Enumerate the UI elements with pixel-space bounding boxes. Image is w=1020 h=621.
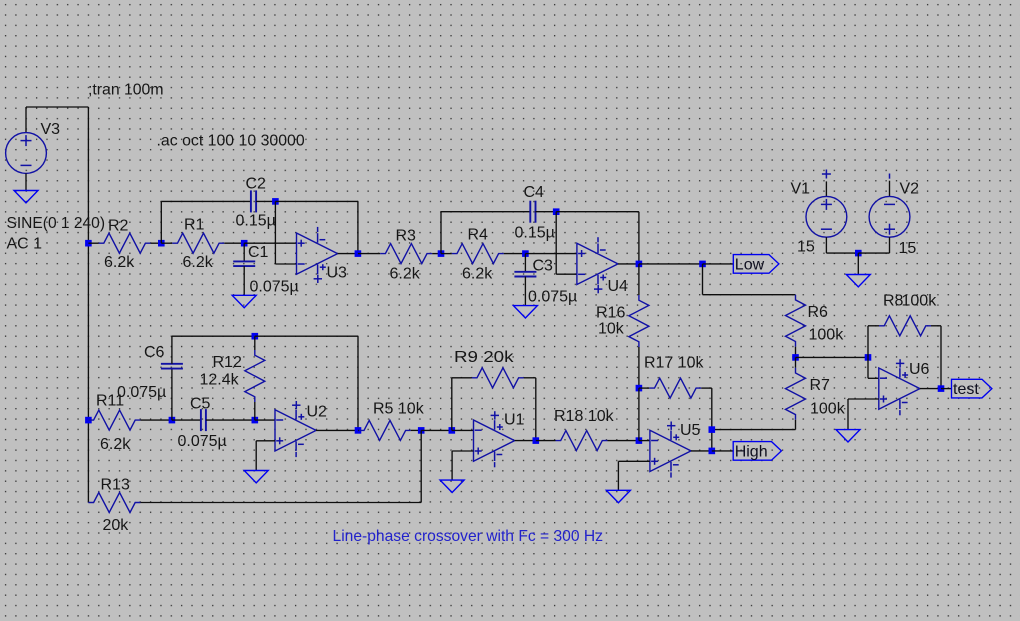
- op-amp U4: [577, 237, 618, 293]
- wire U2 output: [316, 429, 358, 431]
- wire node down to -in: [274, 201, 276, 264]
- wire V1 top lead: [825, 181, 827, 196]
- voltage source V1: [806, 196, 847, 237]
- wire R3 to node: [432, 253, 441, 255]
- node junction R6R7/U6-: [865, 354, 872, 361]
- svg-text:100k: 100k: [809, 327, 845, 344]
- svg-text:U2: U2: [307, 404, 328, 421]
- svg-text:15: 15: [899, 240, 917, 257]
- svg-text:C4: C4: [524, 184, 545, 201]
- wire R11 to node: [140, 419, 172, 421]
- wire U6 output: [920, 388, 941, 390]
- wire C4 line left segment: [441, 211, 530, 213]
- wire down to U4 output node: [638, 212, 640, 264]
- wire node to R18: [536, 440, 556, 442]
- wire V2 to ground node: [858, 252, 889, 254]
- node junction C5/R12/U2-: [252, 417, 259, 424]
- wire U4 output: [618, 263, 639, 265]
- resistor R11: [88, 410, 140, 430]
- wire R8 left: [868, 325, 879, 327]
- resistor R16: [629, 295, 649, 347]
- wire top horizontal to main vertical: [26, 106, 88, 108]
- node junction R6/R7: [792, 354, 799, 361]
- wire R5 to node: [411, 429, 421, 431]
- resistor R4: [452, 244, 504, 264]
- wire node to U5 -in: [639, 440, 650, 442]
- wire node to R4: [441, 253, 452, 255]
- wire R17 corner down: [711, 388, 713, 451]
- wire R9 left horizontal: [452, 377, 472, 379]
- wire R6 node to R7: [795, 357, 797, 367]
- wire node to R1: [161, 242, 172, 244]
- svg-text:C5: C5: [190, 396, 211, 413]
- node junction R9/U1-: [449, 427, 456, 434]
- svg-text:U4: U4: [608, 278, 629, 295]
- wire node to R9 node: [421, 429, 452, 431]
- node junction U2 out/R5: [355, 427, 362, 434]
- svg-text:0.15µ: 0.15µ: [236, 213, 276, 230]
- node junction R1/C1/U3+: [241, 240, 248, 247]
- ground under V1 V2: [846, 253, 870, 287]
- svg-text:.ac oct 100 10 30000: .ac oct 100 10 30000: [157, 133, 305, 150]
- wire node up to C6: [171, 369, 173, 421]
- op-amp U3: [297, 227, 338, 283]
- svg-text:R17 10k: R17 10k: [644, 355, 704, 372]
- resistor R1: [172, 233, 224, 253]
- node junction V1/V2 ground: [855, 250, 862, 257]
- wire U6 +in: [848, 398, 879, 400]
- svg-text:Low: Low: [735, 256, 765, 273]
- svg-text:High: High: [735, 443, 768, 460]
- node junction U4 out: [636, 261, 643, 268]
- node junction bus/R11: [85, 417, 92, 424]
- svg-text:AC 1: AC 1: [7, 236, 43, 253]
- resistor R5: [359, 420, 411, 440]
- op-amp U6: [879, 359, 920, 415]
- wire to High port: [712, 450, 733, 452]
- wire U3 output: [338, 253, 358, 255]
- node junction C4/U4-: [553, 208, 560, 215]
- wire U4 out down to R16: [638, 264, 640, 295]
- wire node up to C4 line: [440, 212, 442, 254]
- node junction R4/C3/U4+: [522, 250, 529, 257]
- wire R9 right horizontal: [524, 377, 536, 379]
- ground U2 +in: [244, 471, 268, 483]
- svg-text:6.2k: 6.2k: [100, 436, 131, 453]
- ground under V3: [14, 173, 38, 203]
- node junction R2/R1/C2: [158, 240, 165, 247]
- node junction C6/R12 top: [252, 333, 259, 340]
- wire node up to C2 line: [160, 201, 162, 243]
- wire U5 +in: [618, 460, 650, 462]
- wire R16 bottom: [638, 347, 640, 388]
- svg-text:Line-phase crossover with Fc =: Line-phase crossover with Fc = 300 Hz: [333, 528, 604, 545]
- node junction U3 out: [355, 250, 362, 257]
- node junction U5 out: [709, 448, 716, 455]
- op-amp U1: [474, 411, 515, 467]
- ground U6 +in: [836, 430, 860, 442]
- wire C6 feedback line: [172, 335, 255, 337]
- node junction Low/R6: [699, 261, 706, 268]
- wire R9 left up: [451, 378, 453, 431]
- svg-text:R18 10k: R18 10k: [554, 408, 615, 425]
- wire C1 top lead: [243, 243, 245, 261]
- wire C4 to node: [536, 211, 557, 213]
- node junction R18/U5-: [636, 437, 643, 444]
- wire to U4 -in: [556, 273, 577, 275]
- svg-text:R1: R1: [184, 217, 205, 234]
- svg-text:V1: V1: [791, 181, 811, 198]
- svg-text:C1: C1: [248, 244, 269, 261]
- wire C6 up to feedback line: [171, 336, 173, 364]
- wire V2 top lead: [889, 181, 891, 197]
- wire R4 to node: [504, 253, 526, 255]
- wire to R6 top: [703, 294, 796, 296]
- ground under C1: [232, 266, 256, 308]
- svg-text:R9 20k: R9 20k: [454, 349, 515, 366]
- wire R8 down to U6 out: [940, 326, 942, 389]
- wire C3 top lead: [524, 254, 526, 272]
- svg-text:0.075µ: 0.075µ: [528, 289, 577, 306]
- svg-text:6.2k: 6.2k: [104, 254, 135, 271]
- output port Low: [733, 255, 779, 274]
- svg-text:10k: 10k: [598, 321, 625, 338]
- wire main vertical bus: [87, 107, 89, 503]
- svg-text:100k: 100k: [902, 293, 938, 310]
- svg-text:SINE(0 1 240): SINE(0 1 240): [7, 215, 106, 232]
- svg-text:0.075µ: 0.075µ: [117, 384, 166, 401]
- wire up to R8 line: [867, 326, 869, 358]
- wire R7 bottom to U5 branch: [712, 429, 796, 431]
- wire R18 to node: [608, 440, 639, 442]
- wire U2 +in down: [255, 441, 257, 471]
- plus marker above V1: [822, 170, 831, 179]
- wire V2 bottom: [889, 237, 891, 253]
- wire R6 bottom to node: [795, 347, 797, 358]
- svg-text:R8: R8: [883, 293, 904, 310]
- node junction R7/R17: [709, 426, 716, 433]
- svg-text:0.075µ: 0.075µ: [178, 433, 227, 450]
- wire U6 -in down: [867, 357, 869, 378]
- wire R9 right down: [535, 378, 537, 441]
- wire U6 +in down: [847, 399, 849, 430]
- resistor R17: [649, 378, 701, 398]
- svg-text:0.15µ: 0.15µ: [515, 225, 555, 242]
- wire to R3: [358, 253, 380, 255]
- svg-text:C2: C2: [246, 176, 267, 193]
- svg-text:15: 15: [797, 239, 815, 256]
- wire to test port: [941, 388, 952, 390]
- resistor R8: [879, 316, 931, 336]
- resistor R6: [786, 295, 806, 347]
- wire node to U1 -in: [452, 429, 474, 431]
- wire U2 +in: [256, 440, 275, 442]
- wire node to U2 -in: [255, 419, 275, 421]
- svg-text:12.4k: 12.4k: [200, 372, 240, 389]
- wire R7 bottom down: [795, 420, 797, 430]
- svg-text:R7: R7: [810, 377, 831, 394]
- svg-text:R16: R16: [596, 305, 625, 322]
- svg-text:R2: R2: [108, 218, 129, 235]
- wire to Low port: [703, 263, 734, 265]
- wire to U6 -in: [868, 377, 879, 379]
- svg-text:R6: R6: [808, 304, 829, 321]
- svg-text:;tran 100m: ;tran 100m: [88, 82, 164, 99]
- resistor R12: [245, 350, 265, 402]
- resistor R7: [786, 368, 806, 420]
- wire node down to U4 -in: [555, 212, 557, 275]
- node junction R3/R4/C4: [438, 250, 445, 257]
- node junction U1 out/R18: [533, 437, 540, 444]
- svg-text:R13: R13: [101, 477, 130, 494]
- minus marker above V2: [889, 174, 891, 179]
- node junction R11/C5/C6: [169, 417, 176, 424]
- svg-text:U1: U1: [504, 412, 525, 429]
- node junction R16/R17: [636, 385, 643, 392]
- wire C2 line left segment: [161, 200, 251, 202]
- wire U1 +in down: [451, 451, 453, 480]
- wire U5 +in down: [617, 461, 619, 490]
- capacitor C2: [251, 190, 256, 212]
- wire down to U3 output node: [357, 201, 359, 253]
- resistor R3: [380, 244, 432, 264]
- wire R13 corner down: [420, 430, 422, 502]
- wire R13 to corner: [140, 502, 421, 504]
- wire down to U2 out node: [357, 336, 359, 430]
- svg-text:U5: U5: [680, 422, 701, 439]
- svg-text:6.2k: 6.2k: [390, 266, 421, 283]
- wire R12 bottom lead: [254, 402, 256, 420]
- wire R17 node down to U5 -in node: [638, 388, 640, 441]
- wire R17 to corner: [701, 387, 712, 389]
- svg-text:6.2k: 6.2k: [462, 266, 493, 283]
- svg-text:R12: R12: [213, 354, 242, 371]
- wire U1 +in: [452, 450, 473, 452]
- svg-text:C6: C6: [144, 344, 165, 361]
- capacitor C5: [201, 409, 206, 431]
- svg-text:6.2k: 6.2k: [183, 254, 214, 271]
- wire C2 line right segment: [275, 200, 358, 202]
- wire Low node down: [702, 264, 704, 295]
- resistor R2: [99, 233, 151, 253]
- node junction C2/U3-: [272, 198, 279, 205]
- svg-text:100k: 100k: [810, 401, 846, 418]
- wire R12 top lead: [254, 336, 256, 350]
- svg-text:R5 10k: R5 10k: [373, 401, 425, 418]
- wire V3 top to corner: [25, 107, 27, 133]
- svg-text:test: test: [953, 381, 979, 398]
- ground U5 +in: [606, 490, 630, 502]
- node junction U6 out: [938, 385, 945, 392]
- svg-text:C3: C3: [533, 258, 554, 275]
- wire U4 out to Low node: [639, 263, 703, 265]
- wire V1 to ground node: [826, 252, 858, 254]
- wire C5 to node: [206, 419, 255, 421]
- svg-text:U6: U6: [909, 361, 930, 378]
- wire U5 output: [691, 450, 712, 452]
- capacitor C4: [530, 201, 535, 223]
- wire node to C5: [172, 419, 201, 421]
- op-amp U5: [650, 422, 691, 478]
- svg-text:V2: V2: [900, 181, 920, 198]
- wire feedback to U2 out column: [255, 335, 358, 337]
- wire node to U3 +in: [244, 242, 296, 244]
- capacitor C3: [514, 272, 536, 277]
- wire node to R5: [357, 429, 360, 431]
- node junction R5/R13: [418, 427, 425, 434]
- op-amp U2: [275, 401, 316, 457]
- ground U1 +in: [440, 480, 464, 492]
- wire V1 bottom: [825, 237, 827, 253]
- svg-text:V3: V3: [41, 121, 61, 138]
- capacitor C1: [233, 261, 255, 266]
- ground under C3: [513, 277, 537, 319]
- svg-text:U3: U3: [327, 265, 348, 282]
- wire node to R17: [639, 387, 649, 389]
- svg-text:R3: R3: [396, 228, 417, 245]
- output port test: [952, 379, 992, 398]
- svg-text:R4: R4: [468, 227, 489, 244]
- node junction V3/R2: [85, 240, 92, 247]
- wire R1 to node: [224, 242, 244, 244]
- wire R6 node to U6 branch: [796, 356, 869, 358]
- wire to U3 -in: [275, 263, 296, 265]
- output port High: [733, 442, 781, 461]
- wire U1 output: [515, 440, 536, 442]
- wire node to U4 +in: [525, 253, 577, 255]
- wire junction to R2: [88, 242, 98, 244]
- voltage source V3: [6, 133, 47, 174]
- wire R8 right: [931, 325, 941, 327]
- svg-text:20k: 20k: [103, 517, 130, 534]
- voltage source V2: [869, 196, 910, 237]
- resistor R18: [556, 431, 608, 451]
- wire R2 to node: [151, 242, 162, 244]
- resistor R9: [472, 368, 524, 388]
- svg-text:0.075µ: 0.075µ: [250, 279, 299, 296]
- capacitor C6: [161, 364, 183, 369]
- wire C4 line right segment: [556, 211, 639, 213]
- resistor R13: [88, 493, 140, 513]
- wire C2 to node: [256, 200, 275, 202]
